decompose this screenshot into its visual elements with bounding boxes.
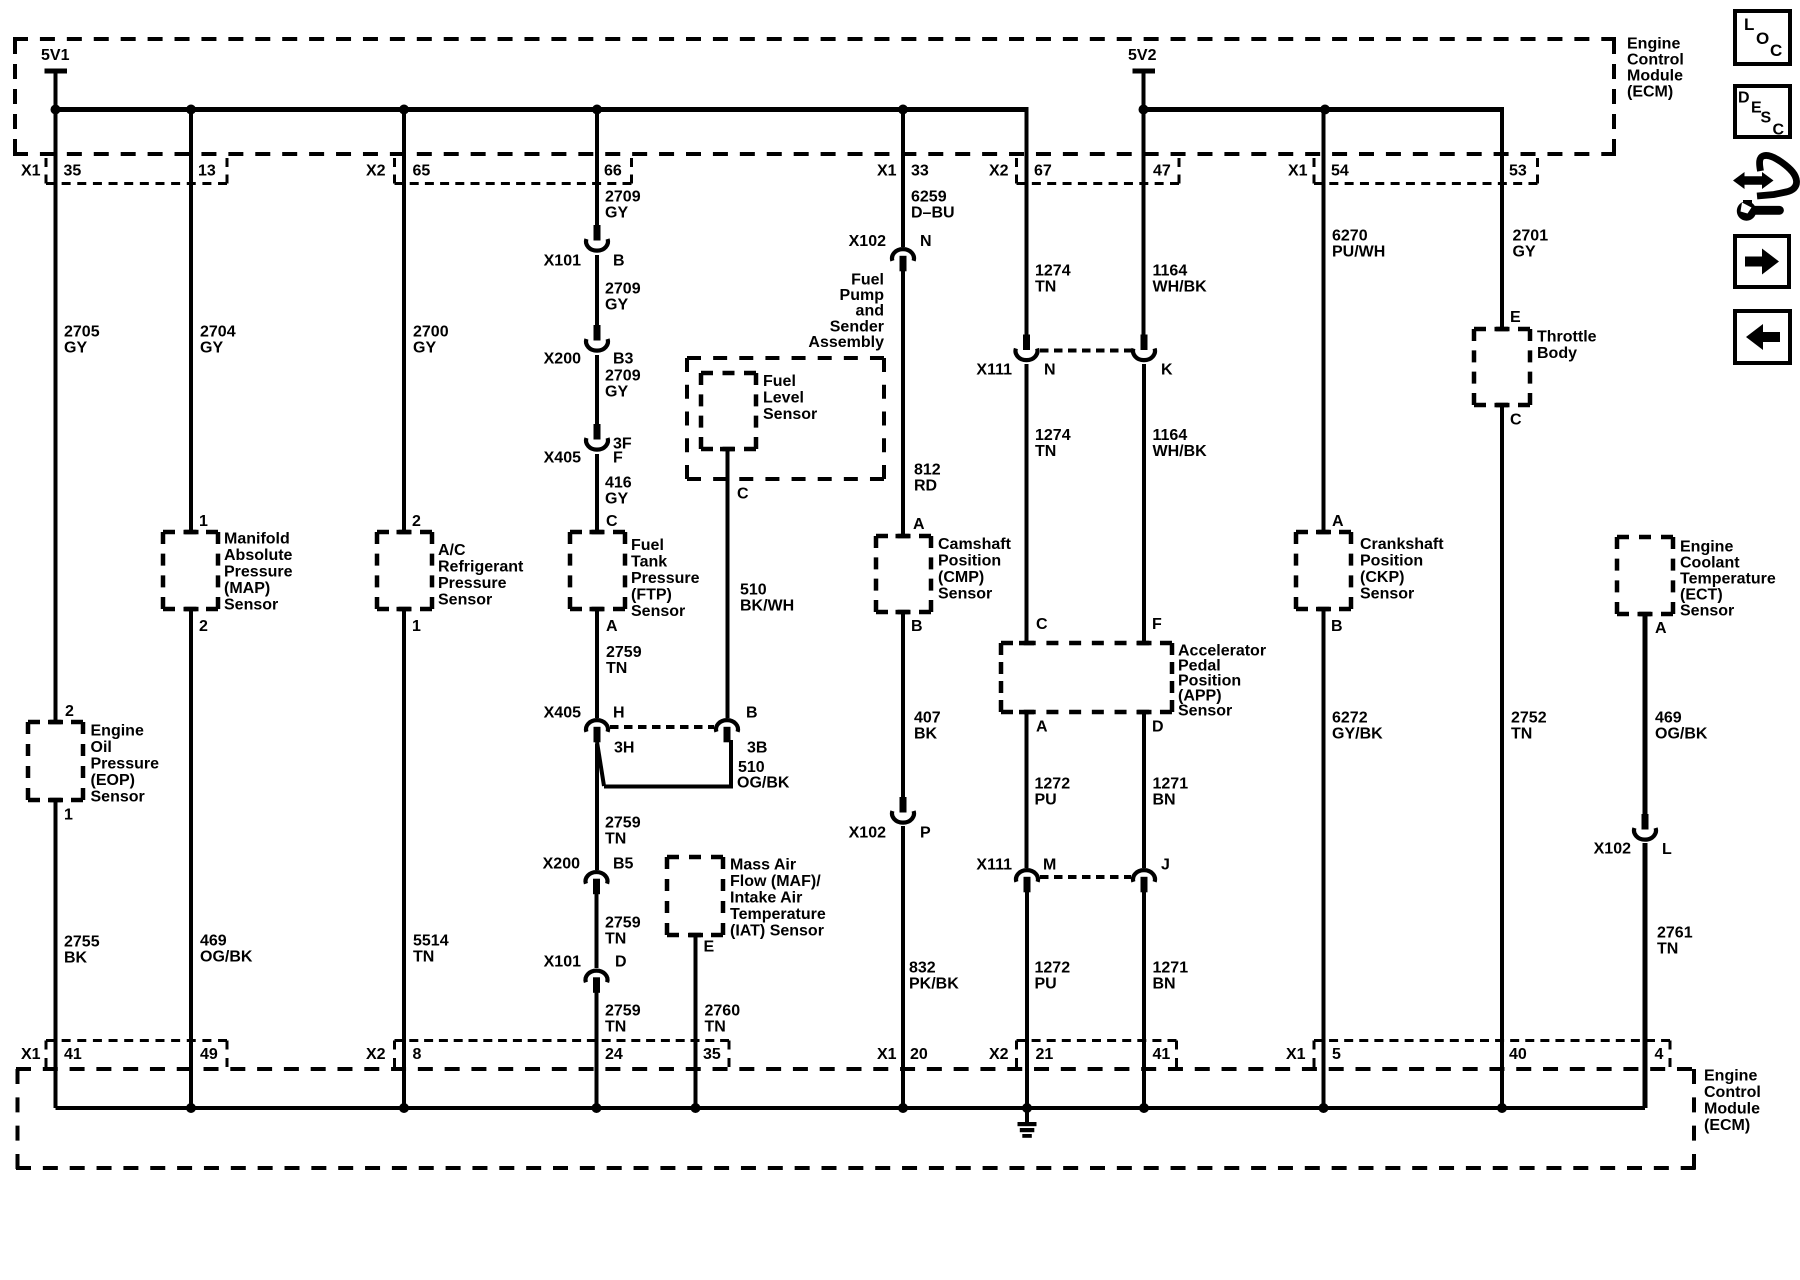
svg-text:BK: BK (914, 725, 938, 742)
wire label 812 RD (914, 461, 941, 494)
junction dot bus1 wire 13 (186, 105, 196, 115)
svg-text:Temperature: Temperature (730, 906, 826, 923)
APP terminal F (1137, 641, 1152, 646)
dashed connector link X111 N-K (1040, 349, 1131, 353)
junction dot bus1 wire 65 (399, 105, 409, 115)
svg-text:K: K (1161, 361, 1173, 378)
wire 5514 TN from A/C sensor to ECM X2-8 (402, 607, 406, 1108)
svg-text:1271: 1271 (1153, 775, 1189, 792)
svg-text:X101: X101 (544, 252, 581, 269)
wire 2759 TN from X405-H to X200-B5 (595, 744, 599, 870)
svg-text:Pump: Pump (840, 287, 885, 304)
wire label 2700 GY (413, 323, 449, 356)
5V1 supply terminal (41, 47, 70, 111)
wire label 6272 GY/BK (1332, 709, 1383, 742)
svg-text:Level: Level (763, 389, 804, 406)
junction dot bus3 wire 41 (1139, 1103, 1149, 1113)
junction dot bus3 wire 40 (1497, 1103, 1507, 1113)
svg-text:Body: Body (1537, 345, 1577, 362)
wire 1271 BN from APP-D to X111-J (1142, 710, 1146, 868)
throttle body terminal bottom (1495, 403, 1510, 408)
svg-text:GY: GY (605, 490, 628, 507)
svg-text:6272: 6272 (1332, 709, 1368, 726)
svg-text:510: 510 (740, 581, 767, 598)
svg-text:2759: 2759 (605, 914, 641, 931)
Accelerator Pedal Position (APP) Sensor box (1001, 643, 1172, 712)
svg-text:X1: X1 (877, 1046, 897, 1063)
svg-text:Flow (MAF)/: Flow (MAF)/ (730, 873, 821, 890)
svg-text:GY: GY (605, 296, 628, 313)
wire 2760 TN from MAF-E to ECM X2-35 (694, 933, 698, 1108)
A/C sensor label (438, 542, 524, 609)
svg-text:65: 65 (413, 162, 431, 179)
svg-text:GY/BK: GY/BK (1332, 725, 1383, 742)
wire label 832 PK/BK (909, 959, 959, 992)
ECT sensor terminal (1638, 612, 1653, 617)
CKP sensor terminal top (1316, 530, 1331, 535)
EOP sensor terminal top (48, 720, 63, 725)
svg-text:X111: X111 (976, 856, 1012, 873)
svg-text:Sensor: Sensor (224, 596, 278, 613)
svg-text:Engine: Engine (1680, 538, 1733, 555)
wire 2701 GY from ECM X1-53 to throttle body (1500, 107, 1504, 331)
wire 469 OG/BK from ECT to X102-L (1643, 612, 1648, 815)
CMP sensor terminal top (896, 534, 911, 539)
svg-text:469: 469 (1655, 709, 1682, 726)
svg-text:X1: X1 (1288, 162, 1308, 179)
svg-text:1: 1 (64, 806, 73, 823)
Crankshaft Position (CKP) Sensor box (1296, 532, 1351, 609)
svg-text:Engine: Engine (1627, 35, 1680, 52)
svg-text:Manifold: Manifold (224, 530, 290, 547)
svg-text:TN: TN (605, 930, 626, 947)
junction dot bus3 wire 5 (1319, 1103, 1329, 1113)
svg-text:X405: X405 (544, 449, 581, 466)
Fuel Pump and Sender Assembly label (808, 271, 884, 351)
wire label 2709 GY segment 1 (605, 188, 641, 221)
svg-text:Pressure: Pressure (224, 563, 293, 580)
wire label 2761 TN (1657, 924, 1693, 957)
svg-text:6270: 6270 (1332, 227, 1368, 244)
svg-text:F: F (1152, 616, 1162, 633)
wire 2700 GY from ECM X2-65 to A/C pressure sensor (402, 110, 406, 535)
svg-text:Tank: Tank (631, 553, 667, 570)
svg-text:(ECT): (ECT) (1680, 586, 1723, 603)
svg-text:A: A (1332, 513, 1344, 530)
wire label 2760 TN (705, 1002, 741, 1035)
APP terminal C (1019, 641, 1034, 646)
svg-text:X2: X2 (989, 162, 1009, 179)
svg-text:O: O (1756, 29, 1769, 48)
svg-text:2704: 2704 (200, 323, 236, 340)
ECM top label (1627, 35, 1684, 100)
junction dot bus1 at 5V1 (51, 105, 61, 115)
svg-text:Pressure: Pressure (631, 570, 700, 587)
wire label 469 OG/BK (200, 932, 253, 965)
svg-text:35: 35 (703, 1046, 721, 1063)
svg-text:Assembly: Assembly (808, 334, 884, 351)
svg-text:X200: X200 (544, 350, 581, 367)
svg-text:WH/BK: WH/BK (1153, 278, 1208, 295)
svg-text:A: A (606, 618, 618, 635)
svg-text:TN: TN (605, 830, 626, 847)
svg-text:X102: X102 (849, 824, 886, 841)
svg-text:RD: RD (914, 477, 937, 494)
wire label 1164 WH/BK segment 2 (1153, 427, 1208, 460)
svg-text:Oil: Oil (91, 739, 112, 756)
wire 1274 TN from ECM X2-67 to X111-N (1025, 107, 1029, 335)
svg-text:Sensor: Sensor (438, 591, 492, 608)
svg-text:WH/BK: WH/BK (1153, 443, 1208, 460)
svg-text:C: C (1510, 411, 1522, 428)
svg-text:Sensor: Sensor (631, 603, 685, 620)
svg-text:Sensor: Sensor (1360, 585, 1414, 602)
svg-text:416: 416 (605, 474, 632, 491)
5V2 supply terminal (1128, 47, 1157, 111)
svg-text:X200: X200 (543, 855, 580, 872)
svg-text:2760: 2760 (705, 1002, 741, 1019)
svg-text:A: A (1036, 718, 1048, 735)
svg-text:Position: Position (938, 552, 1001, 569)
svg-text:C: C (1036, 616, 1048, 633)
svg-text:PU: PU (1035, 975, 1057, 992)
svg-text:(ECM): (ECM) (1627, 83, 1673, 100)
wire label 1271 BN segment 2 (1153, 959, 1189, 992)
svg-text:B3: B3 (613, 350, 634, 367)
Fuel Level Sensor box (701, 373, 756, 449)
wire label 2759 TN segment 4 (605, 1002, 641, 1035)
connector X200 pin B3 (586, 325, 608, 351)
MAF sensor label (730, 856, 826, 939)
APP sensor label (1178, 642, 1266, 719)
svg-text:E: E (704, 938, 715, 955)
Fuel Tank Pressure (FTP) Sensor box (570, 532, 625, 609)
connector X200 pin B5 splice (586, 872, 608, 894)
wire 469 OG/BK from MAP to ECM X1-49 (189, 607, 193, 1108)
service information hand-wrench icon (1733, 155, 1797, 220)
wire 2705 GY from ECM X1-35 to EOP sensor (54, 110, 58, 725)
svg-text:33: 33 (911, 162, 929, 179)
EOP sensor terminal bottom (48, 798, 63, 803)
svg-text:1164: 1164 (1153, 262, 1188, 279)
ground symbol G103 (1018, 1122, 1037, 1138)
wire label 1164 WH/BK segment 1 (1153, 262, 1208, 295)
A/C sensor terminal top (397, 530, 412, 535)
svg-text:X102: X102 (1594, 840, 1631, 857)
svg-text:Absolute: Absolute (224, 547, 293, 564)
svg-text:BN: BN (1153, 975, 1176, 992)
svg-text:N: N (920, 233, 932, 250)
wire 2759 TN from X200-B5 to X101-D (595, 893, 599, 968)
svg-text:A: A (913, 516, 925, 533)
wire 1164 WH/BK from X111-K to APP-F (1142, 364, 1146, 645)
svg-text:X1: X1 (21, 1046, 41, 1063)
junction dot bus2 wire 54 (1320, 105, 1330, 115)
svg-text:407: 407 (914, 709, 941, 726)
svg-text:OG/BK: OG/BK (1655, 725, 1708, 742)
Camshaft Position (CMP) Sensor box (876, 536, 931, 612)
svg-text:Sensor: Sensor (1680, 602, 1734, 619)
svg-text:B5: B5 (613, 855, 634, 872)
svg-text:F: F (613, 449, 623, 466)
svg-text:X405: X405 (544, 704, 581, 721)
APP terminal D (1137, 710, 1152, 715)
connector X101 pin D splice (586, 971, 608, 993)
connector X405 pin B splice (716, 720, 738, 742)
FTP sensor terminal top (590, 530, 605, 535)
wire 2704 GY from ECM X1-13 to MAP sensor (189, 110, 193, 535)
wire label 2705 GY (64, 323, 100, 356)
wire 416 GY from X405-F to FTP sensor (595, 454, 599, 534)
CMP sensor terminal bottom (896, 610, 911, 615)
svg-text:L: L (1662, 841, 1672, 858)
FTP sensor label (631, 537, 700, 620)
APP terminal A (1019, 710, 1034, 715)
svg-text:1274: 1274 (1035, 262, 1071, 279)
svg-text:Sensor: Sensor (91, 788, 145, 805)
svg-text:Engine: Engine (1704, 1067, 1757, 1084)
svg-text:X102: X102 (849, 233, 886, 250)
ECM top dashed box (Engine Control Module) (13, 39, 1616, 154)
svg-text:1271: 1271 (1153, 959, 1189, 976)
wire label 2704 GY (200, 323, 236, 356)
5V reference bus 2 wire (1144, 107, 1505, 112)
svg-text:2709: 2709 (605, 280, 641, 297)
svg-text:BN: BN (1153, 791, 1176, 808)
wire 1164 WH/BK from ECM X2-47 to X111-K (1142, 110, 1146, 336)
ECT sensor label (1680, 538, 1776, 619)
wire label 1274 TN segment 1 (1035, 262, 1071, 295)
svg-text:B: B (746, 704, 758, 721)
wire label 2759 TN segment 2 (605, 814, 641, 847)
svg-text:D: D (615, 953, 627, 970)
svg-text:and: and (856, 303, 884, 320)
svg-text:Coolant: Coolant (1680, 554, 1740, 571)
svg-text:1272: 1272 (1035, 959, 1071, 976)
svg-text:X1: X1 (877, 162, 897, 179)
ECM bottom dashed box (16, 1069, 1696, 1169)
svg-text:47: 47 (1153, 162, 1171, 179)
svg-text:B: B (1331, 618, 1343, 635)
svg-text:PU: PU (1035, 791, 1057, 808)
svg-text:Pressure: Pressure (438, 575, 507, 592)
Engine Coolant Temperature (ECT) Sensor box (1617, 537, 1673, 614)
svg-text:40: 40 (1509, 1046, 1527, 1063)
svg-text:54: 54 (1331, 162, 1349, 179)
X2 pin box top (pins 67-47) (1017, 158, 1180, 184)
svg-text:2755: 2755 (64, 933, 100, 950)
svg-text:X111: X111 (976, 361, 1012, 378)
svg-text:2709: 2709 (605, 188, 641, 205)
wire label 2709 GY segment 3 (605, 367, 641, 400)
svg-text:BK: BK (64, 949, 88, 966)
FTP sensor terminal bottom (590, 607, 605, 612)
X1 pin box bottom (pins 41-49) (46, 1041, 227, 1068)
svg-text:C: C (606, 513, 618, 530)
svg-text:D: D (1152, 718, 1164, 735)
svg-text:D: D (1738, 89, 1750, 106)
wire label 510 BK/WH (740, 581, 794, 614)
svg-text:53: 53 (1509, 162, 1527, 179)
wire label 2709 GY segment 2 (605, 280, 641, 313)
Throttle Body label (1537, 328, 1597, 362)
X2 pin box bottom (pins 8-24-35) (395, 1041, 730, 1068)
junction dot bus1 wire 66 (592, 105, 602, 115)
ECM bottom label (1704, 1067, 1761, 1134)
svg-text:BK/WH: BK/WH (740, 597, 794, 614)
svg-text:PU/WH: PU/WH (1332, 243, 1385, 260)
svg-text:510: 510 (738, 759, 765, 776)
CMP sensor label (938, 536, 1012, 603)
svg-text:J: J (1161, 856, 1170, 873)
svg-text:2761: 2761 (1657, 924, 1693, 941)
dashed connector link X111 M-J (1040, 875, 1131, 879)
svg-text:GY: GY (605, 383, 628, 400)
wire 510 BK/WH from fuel level sensor to X405-B (726, 447, 730, 718)
svg-text:X1: X1 (21, 162, 41, 179)
connector X111 pin M splice (1016, 870, 1038, 892)
svg-text:X2: X2 (989, 1046, 1009, 1063)
CKP sensor label (1360, 536, 1444, 603)
connector X111 pin K (1133, 335, 1155, 361)
wire 6270 PU/WH from ECM X1-54 to CKP sensor (1322, 107, 1326, 534)
svg-text:812: 812 (914, 461, 941, 478)
back arrow navigation icon (1735, 311, 1790, 363)
wire 1274 TN from X111-N to APP-C (1025, 364, 1029, 645)
svg-text:Fuel: Fuel (763, 373, 796, 390)
svg-text:(CKP): (CKP) (1360, 569, 1404, 586)
svg-text:20: 20 (910, 1046, 928, 1063)
Fuel Level Sensor label (763, 373, 817, 423)
svg-text:TN: TN (1035, 443, 1056, 460)
wire label 2752 TN (1511, 709, 1547, 742)
svg-text:67: 67 (1034, 162, 1052, 179)
svg-text:P: P (920, 824, 931, 841)
svg-text:2759: 2759 (605, 814, 641, 831)
wire label 407 BK (914, 709, 941, 742)
svg-text:Sensor: Sensor (763, 406, 817, 423)
X1 pin box bottom (pins 5-40-4) (1314, 1041, 1670, 1068)
junction dot bus3 wire 20 (898, 1103, 908, 1113)
svg-text:2759: 2759 (605, 1002, 641, 1019)
connector X111 pin J splice (1133, 870, 1155, 892)
MAP sensor terminal bottom (184, 607, 199, 612)
svg-text:PK/BK: PK/BK (909, 975, 959, 992)
MAP sensor label (224, 530, 293, 613)
svg-text:21: 21 (1036, 1046, 1054, 1063)
svg-text:(EOP): (EOP) (91, 772, 135, 789)
svg-text:Camshaft: Camshaft (938, 536, 1012, 553)
junction dot bus3 wire 8 (399, 1103, 409, 1113)
svg-text:35: 35 (64, 162, 82, 179)
wire 2755 BK from EOP to ECM X1-41 (54, 798, 58, 1108)
svg-text:13: 13 (198, 162, 216, 179)
Engine Oil Pressure (EOP) Sensor box (28, 722, 83, 800)
fuel level sensor terminal (720, 447, 735, 452)
A/C Refrigerant Pressure Sensor box (377, 532, 432, 609)
svg-text:2752: 2752 (1511, 709, 1547, 726)
svg-text:TN: TN (705, 1018, 726, 1035)
svg-text:(MAP): (MAP) (224, 580, 270, 597)
X2 pin box bottom (pins 21-41) (1017, 1041, 1177, 1068)
junction dot bus3 wire 49 (186, 1103, 196, 1113)
X1 pin box top (pins 35-13) (46, 158, 227, 184)
svg-text:Module: Module (1704, 1100, 1760, 1117)
svg-text:24: 24 (605, 1046, 623, 1063)
wire 6272 GY/BK from CKP to ECM X1-5 (1322, 607, 1326, 1108)
svg-text:GY: GY (605, 204, 628, 221)
svg-text:2705: 2705 (64, 323, 100, 340)
svg-text:OG/BK: OG/BK (200, 948, 253, 965)
svg-text:1272: 1272 (1035, 775, 1071, 792)
svg-text:Crankshaft: Crankshaft (1360, 536, 1444, 553)
svg-text:5V1: 5V1 (41, 47, 70, 64)
svg-text:A/C: A/C (438, 542, 466, 559)
svg-text:5514: 5514 (413, 932, 449, 949)
wire 2709 GY from X101-B to X200-B3 (595, 255, 599, 326)
DESC navigation icon (1735, 86, 1790, 138)
wire label 1271 BN segment 1 (1153, 775, 1189, 808)
svg-text:H: H (613, 704, 625, 721)
svg-text:4: 4 (1655, 1046, 1664, 1063)
junction dot bus3 ground (1022, 1103, 1032, 1113)
svg-text:2: 2 (199, 618, 208, 635)
svg-text:N: N (1044, 361, 1056, 378)
svg-text:Control: Control (1627, 51, 1684, 68)
MAF sensor terminal (688, 933, 703, 938)
wire label 6259 D-BU (911, 188, 955, 221)
svg-text:C: C (737, 485, 749, 502)
junction dot bus3 wire 35 (691, 1103, 701, 1113)
wire label 2755 BK (64, 933, 100, 966)
svg-text:2700: 2700 (413, 323, 449, 340)
wire 832 PK/BK from X102-P to ECM X1-20 (901, 826, 905, 1108)
wire label 2759 TN segment 1 (606, 644, 642, 677)
wire label 416 GY (605, 474, 632, 507)
wire 407 BK from CMP to X102-P (901, 610, 905, 798)
svg-text:TN: TN (1511, 725, 1532, 742)
svg-text:S: S (1761, 109, 1772, 126)
svg-text:Mass Air: Mass Air (730, 856, 796, 873)
wire 6259 D-BU from ECM X1-33 to X102-N (901, 110, 905, 248)
svg-text:TN: TN (605, 1018, 626, 1035)
svg-text:469: 469 (200, 932, 227, 949)
Throttle Body box (1474, 329, 1530, 405)
svg-text:Sensor: Sensor (938, 585, 992, 602)
wire 2709 GY from X200-B3 to X405-F (595, 355, 599, 425)
svg-text:Sensor: Sensor (1178, 702, 1232, 719)
wire 1271 BN from X111-J to ECM X2-41 (1142, 892, 1146, 1108)
svg-text:1164: 1164 (1153, 427, 1188, 444)
svg-text:D–BU: D–BU (911, 204, 955, 221)
svg-text:C: C (1770, 41, 1782, 60)
wire 2759 TN from FTP-A to X405-H (595, 607, 599, 718)
throttle body terminal top (1495, 327, 1510, 332)
svg-text:66: 66 (604, 162, 622, 179)
ECM return bus wire (56, 1106, 1646, 1110)
svg-text:OG/BK: OG/BK (737, 774, 790, 791)
svg-text:TN: TN (1035, 278, 1056, 295)
svg-text:2709: 2709 (605, 367, 641, 384)
connector X405 pin H splice (586, 720, 608, 742)
dashed connector link X405 H-B (610, 725, 714, 729)
svg-text:3H: 3H (614, 739, 634, 756)
svg-text:X2: X2 (366, 162, 386, 179)
Manifold Absolute Pressure (MAP) Sensor box (163, 532, 218, 609)
svg-text:TN: TN (606, 660, 627, 677)
X2 pin box top (pins 65-66) (395, 158, 632, 184)
CKP sensor terminal bottom (1316, 607, 1331, 612)
